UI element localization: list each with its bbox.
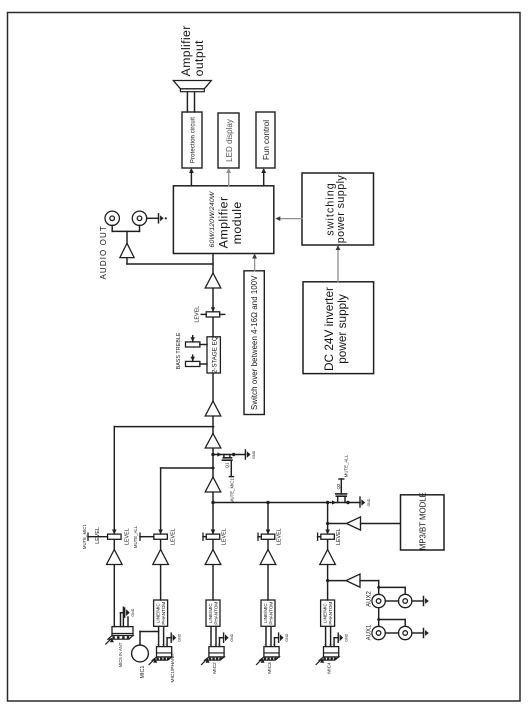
wire AUX2 lower jack [379, 586, 406, 588]
wire channel MIC3 row [267, 503, 269, 535]
op-amp MP3 buffer [347, 517, 361, 530]
svg-text:LEVEL: LEVEL [195, 306, 201, 323]
svg-text:Fun control: Fun control [262, 120, 271, 160]
ground at connector MIC1 [170, 633, 172, 642]
svg-text:MUTE_MIC1: MUTE_MIC1 [229, 478, 234, 503]
node AUX1 split [377, 618, 380, 621]
RCA jack AUX2 a [372, 594, 385, 607]
wire main signal line [212, 254, 214, 535]
wire channel MIC4 [327, 565, 329, 601]
svg-text:LEVEL: LEVEL [221, 528, 227, 545]
wire stubs connector MIC1 [158, 626, 160, 646]
box switching power supply [302, 173, 374, 245]
wire between AUX1 jacks [385, 632, 398, 634]
wire ground stub MIC1 [166, 638, 168, 647]
box 2-STAGE EQ [207, 337, 220, 373]
wire channel MIC5 [113, 565, 115, 627]
plug symbol AUX2 [412, 600, 424, 602]
plug symbol AUX1 [412, 632, 424, 634]
svg-text:LEVEL: LEVEL [171, 528, 177, 545]
wire MP3 triangle to module [361, 523, 401, 525]
svg-text:power supply: power supply [335, 294, 349, 364]
potentiometer LEVEL (MIC4) [321, 534, 335, 539]
wire AUX feed [328, 580, 346, 582]
connector MIC2 (MIC2) [209, 647, 224, 657]
wire bus A (channel MIC5 row) [114, 426, 213, 428]
svg-text:MIC3: MIC3 [267, 662, 273, 674]
potentiometer BASS [186, 361, 200, 366]
svg-text:PHANTOM: PHANTOM [328, 602, 333, 625]
svg-text:MIC1: MIC1 [140, 666, 146, 679]
op-amp T4 (mix buffer) [205, 477, 221, 492]
ground at connector MIC2 [223, 633, 225, 642]
wire to audio out jacks [126, 231, 128, 243]
node bus B junction [212, 467, 215, 470]
wire MIC5 to level pot [113, 539, 115, 549]
svg-text:LEVEL: LEVEL [336, 528, 342, 545]
svg-text:AUDIO OUT: AUDIO OUT [99, 225, 108, 279]
box LED display [218, 113, 239, 168]
wire MIC1 to level pot [160, 539, 162, 549]
wire between AUX2 jacks [385, 600, 398, 602]
svg-text:PHANTOM: PHANTOM [161, 602, 166, 625]
svg-text:LEVEL: LEVEL [125, 528, 131, 545]
box LINE/MIC PHANTOM MIC3 [261, 600, 275, 626]
wire MIC2 to level pot [212, 539, 214, 549]
box DC 24V inverter power supply [303, 282, 374, 374]
box Amplifier module [173, 186, 273, 254]
wire switching PS to amplifier module [278, 218, 303, 220]
wire channel MIC3 [267, 565, 269, 601]
connector MIC1 (MIC1/PHANT) [157, 647, 172, 657]
svg-text:LINE/MIC: LINE/MIC [208, 603, 213, 624]
box LINE/MIC PHANTOM MIC1 [154, 600, 168, 626]
wire channel MIC2 [212, 565, 214, 601]
node bus C / MIC4 row [326, 501, 329, 504]
box MP3/BT MODLE [401, 495, 445, 550]
svg-text:LEVEL: LEVEL [276, 528, 282, 545]
RCA jack audio out L [105, 211, 119, 225]
RCA jack AUX2 b [399, 594, 412, 607]
wire amp to LED display [228, 170, 230, 186]
potentiometer LEVEL (MIC5) with MUTE_MIC1 tap [108, 534, 122, 539]
svg-text:MP3/BT MODLE: MP3/BT MODLE [419, 492, 428, 550]
svg-text:MUTE_ALL: MUTE_ALL [343, 454, 348, 477]
RCA jack audio out R [132, 211, 146, 225]
op-amp buffer MIC5 [107, 550, 123, 565]
svg-text:AUX2: AUX2 [366, 591, 372, 607]
potentiometer LEVEL (MIC3) [261, 534, 275, 539]
op-amp buffer MIC1 [153, 550, 169, 565]
wire switch-over box to amplifier module [254, 256, 256, 271]
box LINE/MIC PHANTOM MIC2 [206, 600, 220, 626]
wire ground stub MIC4 [333, 638, 335, 647]
svg-text:power supply: power supply [335, 175, 347, 244]
svg-text:GND: GND [131, 608, 135, 616]
plug symbol audio out [147, 217, 159, 219]
svg-text:MIC1/PHANT: MIC1/PHANT [170, 653, 176, 682]
ground at connector MIC4 [337, 633, 339, 642]
wire bus B (channel MIC1 row) [161, 467, 214, 469]
svg-text:MUTE_MIC1: MUTE_MIC1 [82, 524, 87, 549]
wire microphone MIC1 to connector [139, 632, 141, 646]
wire ground stub MIC2 [219, 638, 221, 647]
op-amp buffer MIC3 [260, 550, 276, 565]
svg-text:2-STAGE EQ: 2-STAGE EQ [212, 336, 219, 373]
transistor Q2 (MUTE_ALL mosfet) [332, 500, 336, 504]
wire arrows into level pots [112, 530, 116, 535]
ground at Q1 [244, 450, 246, 459]
potentiometer TREBLE [186, 342, 200, 347]
wire MP3 module feed [328, 523, 346, 525]
node bus C / MIC3 row [266, 501, 269, 504]
RCA jack AUX1 a [372, 626, 385, 639]
svg-text:LED display: LED display [225, 119, 234, 162]
svg-text:Protection circuit: Protection circuit [191, 117, 197, 163]
op-amp T1 (driver) [205, 273, 221, 288]
wire ground stub MIC3 [274, 638, 276, 647]
svg-text:DC 24V inverter: DC 24V inverter [322, 287, 336, 371]
svg-text:BASS: BASS [176, 355, 182, 370]
svg-text:LINE/MIC: LINE/MIC [155, 603, 160, 624]
svg-text:Switch over between 4-16Ω and: Switch over between 4-16Ω and 100V [250, 275, 259, 410]
microphone MIC1 [132, 645, 149, 662]
box LINE/MIC PHANTOM MIC4 [321, 600, 335, 626]
svg-text:TREBLE: TREBLE [176, 332, 182, 353]
wire MIC3 to level pot [267, 539, 269, 549]
svg-text:MIC2: MIC2 [212, 662, 218, 674]
op-amp buffer MIC4 [320, 550, 336, 565]
op-amp T3 [205, 434, 221, 449]
svg-text:GND: GND [230, 633, 234, 641]
wire speaker cable [186, 92, 188, 112]
svg-text:LEVEL: LEVEL [95, 527, 101, 544]
node AUX tap on MIC4 row [326, 579, 329, 582]
svg-text:MIC4: MIC4 [327, 662, 333, 674]
transistor Q1 (MUTE_MIC mosfet) [217, 452, 221, 456]
svg-text:MIC5 IN ANT: MIC5 IN ANT [118, 642, 123, 667]
node before Q1 ground [232, 453, 235, 456]
wire channel MIC4 row [327, 503, 329, 535]
node MP3 tap on MIC4 row [326, 522, 329, 525]
connector MIC5 IN ANT [112, 627, 133, 636]
box Protection circuit [182, 112, 202, 168]
svg-text:LINE/MIC: LINE/MIC [263, 603, 268, 624]
svg-text:60W/120W/240W: 60W/120W/240W [209, 191, 216, 247]
wire AUX1 lower jack [379, 619, 406, 621]
svg-text:GND: GND [177, 633, 181, 641]
svg-text:Amplifier: Amplifier [216, 197, 230, 249]
wire stubs connector MIC3 [265, 626, 267, 646]
svg-text:GND: GND [367, 498, 371, 506]
node bus C on main line [211, 501, 214, 504]
svg-text:module: module [230, 201, 244, 244]
connector MIC3 (MIC3) [264, 647, 279, 657]
op-amp audio out buffer [120, 243, 134, 257]
wire audio out branch [127, 263, 213, 265]
wire DC24V to switching PS [337, 247, 339, 282]
svg-text:GND: GND [252, 450, 256, 458]
wire AUX1 feed [378, 608, 380, 627]
svg-text:GND: GND [285, 633, 289, 641]
wire stubs connector MIC2 [210, 626, 212, 646]
wire stubs connector MIC5 [120, 613, 122, 627]
wire amp to fun control [263, 170, 265, 186]
wire bus C (mix bus to Q2/GND) [213, 502, 360, 504]
node AUX2 split [377, 586, 380, 589]
svg-text:output: output [192, 40, 206, 76]
wire AUX triangle to jacks [360, 580, 379, 582]
svg-text:LINE/MIC: LINE/MIC [322, 603, 327, 624]
svg-text:Amplifier: Amplifier [179, 25, 193, 76]
box switch over between 4-16ohm and 100V [244, 271, 264, 415]
box Fun control [256, 112, 275, 168]
ground at connector MIC3 [278, 633, 280, 642]
op-amp T2 (pre EQ) [205, 401, 221, 416]
svg-text:GND: GND [344, 633, 348, 641]
speaker [180, 89, 204, 92]
ground at bus C [359, 497, 361, 507]
potentiometer LEVEL (master) [206, 312, 220, 317]
potentiometer LEVEL (MIC2) [206, 534, 220, 539]
wire MIC4 to level pot [327, 539, 329, 549]
connector MIC4 (MIC4) [324, 647, 339, 657]
op-amp AUX buffer [346, 574, 360, 587]
wire amp to protection circuit [190, 170, 192, 186]
svg-text:Q1: Q1 [224, 462, 229, 468]
svg-text:Q2: Q2 [336, 483, 341, 489]
node bus C before ground [346, 501, 349, 504]
potentiometer LEVEL (MIC1) with MUTE_ALL tap [154, 534, 168, 539]
svg-text:PHANTOM: PHANTOM [214, 602, 219, 625]
node Q1 tap on main line [211, 453, 214, 456]
svg-text:AUX1: AUX1 [366, 624, 372, 640]
wire stubs connector MIC4 [325, 626, 327, 646]
op-amp buffer MIC2 [205, 550, 221, 565]
wire Q1 drop to ground [213, 454, 245, 456]
RCA jack AUX1 b [399, 626, 412, 639]
wire channel MIC1 [160, 565, 162, 601]
svg-text:MUTE_ALL: MUTE_ALL [133, 525, 138, 548]
ground at connector MIC5 [124, 608, 126, 617]
svg-text:PHANTOM: PHANTOM [269, 602, 274, 625]
